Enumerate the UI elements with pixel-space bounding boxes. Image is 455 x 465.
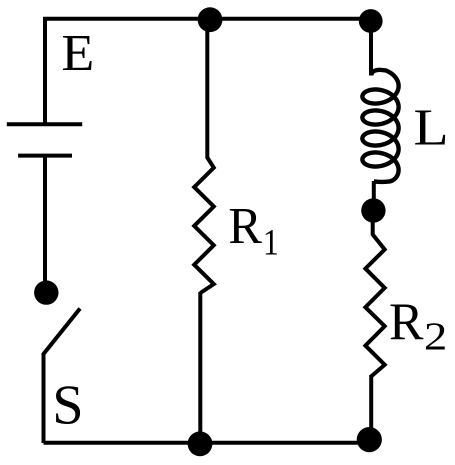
wire: bottom wire: [44, 441, 370, 445]
node: bottom right junction: [357, 427, 382, 452]
inductor L: [362, 70, 398, 182]
node: top right junction: [359, 9, 383, 33]
wire: R2 bottom lead: [369, 375, 373, 442]
wire: bottom lead of inductor: [372, 181, 376, 205]
wire: battery top lead and top-left wire: [45, 19, 212, 124]
wire: top lead of inductor: [369, 20, 373, 76]
battery E plate (short, bottom): [18, 154, 72, 158]
svg-text:S: S: [52, 375, 83, 437]
svg-text:1: 1: [263, 222, 279, 263]
wire: node to R2 top: [371, 211, 375, 236]
node: top middle junction: [198, 7, 223, 32]
resistor R1: [194, 158, 214, 294]
svg-text:R: R: [389, 293, 424, 351]
node: switch top contact: [34, 280, 58, 304]
svg-text:2: 2: [424, 315, 448, 358]
wire: battery bottom lead: [43, 156, 47, 290]
node: junction between L and R2: [361, 198, 385, 222]
wire: R1 bottom lead: [198, 292, 202, 443]
wire: R1 top lead: [205, 19, 209, 159]
switch S blade and post: [44, 309, 81, 444]
battery E plate (long, top): [7, 122, 82, 126]
node: bottom middle junction: [188, 431, 213, 456]
svg-text:E: E: [61, 24, 94, 82]
svg-text:R: R: [228, 198, 262, 255]
resistor R2: [365, 235, 384, 377]
svg-text:L: L: [414, 99, 449, 156]
wire: top wire middle-to-right: [208, 17, 371, 21]
